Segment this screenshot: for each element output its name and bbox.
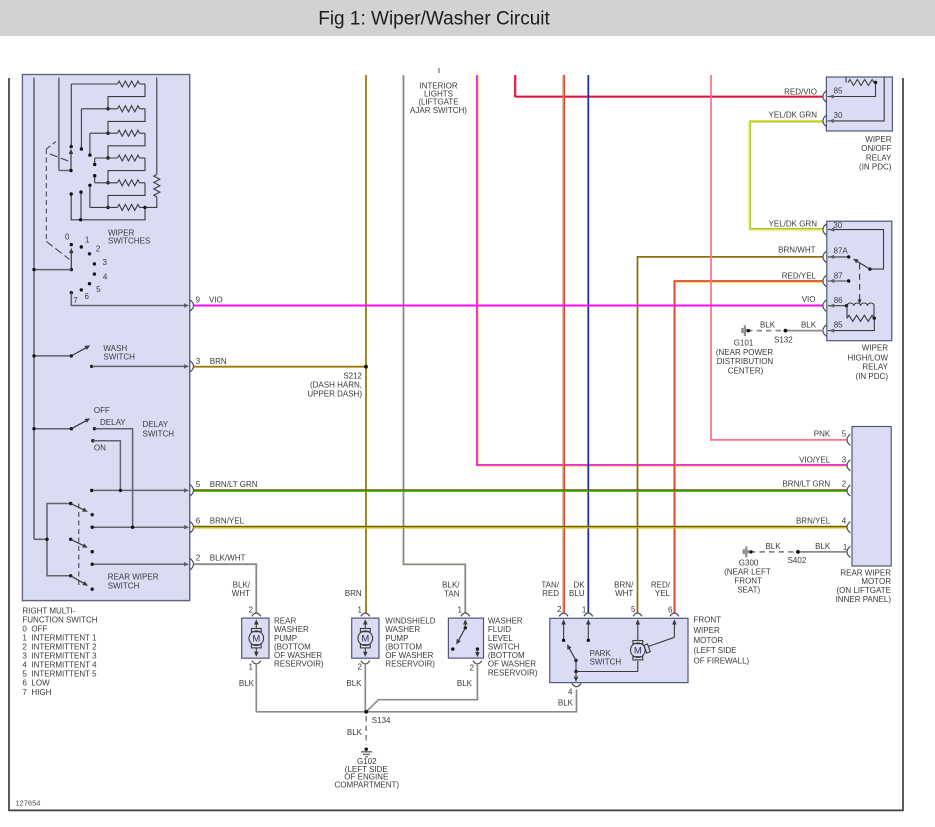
svg-text:3: 3 [103, 258, 108, 267]
wire YEL/DK GRN [749, 121, 823, 230]
svg-text:S402: S402 [788, 556, 807, 565]
node rail junction [79, 218, 82, 221]
svg-text:7: 7 [73, 296, 78, 305]
svg-text:87A: 87A [834, 247, 849, 256]
svg-text:BLK: BLK [239, 679, 255, 688]
svg-text:2: 2 [469, 663, 474, 672]
svg-text:3: 3 [196, 357, 201, 366]
node wiper switch contact 1 [80, 235, 90, 248]
svg-text:2: 2 [96, 245, 101, 254]
svg-text:INTERMITTENT 4: INTERMITTENT 4 [31, 661, 97, 670]
wire delay contact down [95, 429, 133, 528]
pin 1 connector (windshield washer pump) [358, 605, 370, 616]
label FRONT WIPER MOTOR [694, 616, 750, 666]
label BLK (x2 relay ground) [760, 320, 817, 329]
svg-text:WHT: WHT [232, 589, 250, 598]
label YEL/DK GRN (relay2) [769, 220, 818, 229]
svg-text:BRN: BRN [210, 357, 227, 366]
wire BLK (relay K2 pin 85 to S132) [785, 330, 823, 332]
wire RED/VIO [515, 75, 823, 98]
wire BRN/YEL (horizontal) [194, 527, 848, 528]
svg-text:86: 86 [834, 296, 843, 305]
node R6 junction [106, 206, 109, 209]
wire R1-R2 link [108, 84, 145, 109]
relay K2 coil to pin 85 [828, 318, 874, 332]
pin 9 connector [184, 295, 223, 311]
svg-text:SWITCH: SWITCH [590, 658, 622, 667]
svg-text:RELAY: RELAY [866, 153, 892, 162]
wire R4-R5 link [108, 158, 145, 183]
wire VIO/YEL [477, 75, 847, 466]
svg-text:SWITCHES: SWITCHES [108, 237, 150, 246]
svg-text:OFF: OFF [94, 406, 110, 415]
node wiper switch contact 5 [88, 282, 101, 294]
label WIPER ON/OFF RELAY (IN PDC) [859, 135, 892, 172]
pin 2 connector [184, 554, 245, 570]
svg-text:BLK: BLK [815, 542, 831, 551]
pin 30 connector (K1) [823, 111, 843, 126]
svg-text:RESERVOIR): RESERVOIR) [274, 660, 324, 669]
svg-text:4: 4 [842, 517, 847, 526]
svg-text:BLK: BLK [346, 679, 362, 688]
wire BLK dashed to G101 [750, 330, 781, 332]
wire R3-R4 link [108, 133, 145, 158]
pin 1 connector (rear wiper motor) [847, 546, 850, 557]
svg-text:BLK/WHT: BLK/WHT [210, 554, 246, 563]
svg-text:BLK: BLK [760, 320, 776, 329]
wire to pin 6 [91, 526, 186, 529]
svg-text:WIPER: WIPER [862, 344, 888, 353]
label DK BLU [569, 581, 585, 599]
svg-text:FRONT: FRONT [694, 616, 722, 625]
svg-text:RIGHT MULTI-: RIGHT MULTI- [22, 606, 75, 615]
svg-text:6: 6 [22, 679, 27, 688]
svg-text:(IN PDC): (IN PDC) [859, 163, 892, 172]
node wiper switch contact 3 [93, 258, 108, 267]
svg-text:7: 7 [22, 688, 27, 697]
svg-text:RELAY: RELAY [862, 363, 888, 372]
wire R6 tap stub [89, 185, 91, 207]
svg-text:3: 3 [842, 456, 847, 465]
wire BLK dashed to G300 [751, 551, 794, 553]
node R5 junction [106, 181, 109, 184]
wire stub to interior lights [438, 68, 440, 73]
right multi-function switch box [22, 75, 189, 601]
pin 85 connector (K1) [823, 87, 843, 103]
fluid level switch internals [451, 619, 480, 657]
node wash contact [90, 365, 93, 368]
wire R2 tap stub [80, 109, 82, 149]
pin 2 connector (windshield washer pump) [358, 661, 370, 672]
svg-text:BLU: BLU [569, 589, 585, 598]
label VIO/YEL (right) [799, 456, 847, 465]
svg-text:UPPER DASH): UPPER DASH) [307, 389, 362, 398]
wire BLK windshield pump down [364, 665, 366, 712]
node R3 junction [106, 132, 109, 135]
svg-text:2: 2 [22, 643, 27, 652]
label DELAY SWITCH [143, 420, 175, 439]
label OFF [94, 406, 110, 415]
wire BRN (vertical) [365, 75, 367, 613]
label WINDSHIELD WASHER PUMP [385, 616, 435, 668]
node contact 6 upper [79, 190, 82, 193]
svg-text:ON/OFF: ON/OFF [861, 144, 891, 153]
pin 6 connector (front wiper motor) [668, 605, 679, 616]
switch arm SW-C (wash) [32, 345, 90, 357]
wire rotary feed [32, 268, 71, 271]
wire bus B1 (left feed bus x=34) [34, 78, 47, 540]
svg-text:(LEFT SIDE: (LEFT SIDE [694, 646, 737, 655]
relay K1 coil to pin 85 [828, 83, 876, 99]
svg-text:REAR: REAR [274, 616, 296, 625]
node contact 5 upper [88, 184, 91, 187]
svg-text:(NEAR LEFT: (NEAR LEFT [724, 568, 771, 577]
node contact 1 upper [80, 147, 83, 150]
svg-text:RED/YEL: RED/YEL [782, 272, 817, 281]
pin 6 connector [184, 517, 245, 533]
svg-text:1: 1 [22, 633, 27, 642]
wire PNK [711, 75, 847, 440]
svg-text:MOTOR: MOTOR [861, 577, 891, 586]
node wiper switch contact 7 [70, 291, 79, 305]
rear wiper motor box [852, 427, 891, 567]
svg-text:(NEAR POWER: (NEAR POWER [716, 348, 774, 357]
front wiper motor M [631, 641, 651, 660]
front motor pin5 lead [636, 619, 641, 640]
switch arm SW-E2 (rear wiper) [69, 538, 88, 548]
resistor R3 [90, 130, 145, 136]
svg-text:OF WASHER: OF WASHER [385, 651, 433, 660]
svg-text:(DASH HARN,: (DASH HARN, [310, 381, 362, 390]
label PNK [814, 430, 847, 439]
svg-text:6: 6 [85, 292, 90, 301]
wire BLK/WHT (to rear washer pump) [194, 564, 257, 612]
node wiper switch contact 4 [93, 272, 108, 281]
washer fluid level switch box [448, 618, 483, 658]
label BLK (x2 rear motor ground) [765, 542, 830, 551]
label VIO (right) [802, 295, 816, 304]
svg-text:OF FIREWALL): OF FIREWALL) [694, 656, 750, 665]
svg-text:S212: S212 [343, 372, 362, 381]
pin 5 connector (front wiper motor) [631, 605, 642, 616]
label REAR WASHER PUMP [274, 616, 324, 668]
relay K2 box (wiper high/low relay) [827, 221, 892, 341]
wire wash to pin 3 [92, 365, 186, 367]
pin 86 connector (K2) [823, 296, 843, 311]
label WIPER HIGH/LOW RELAY (IN PDC) [848, 344, 889, 381]
svg-text:SEAT): SEAT) [737, 585, 760, 594]
svg-text:BRN/LT GRN: BRN/LT GRN [782, 480, 830, 489]
label REAR WIPER SWITCH [108, 573, 159, 591]
wire to pin 5 [90, 489, 186, 492]
wire BLK motor pin4 down [256, 690, 576, 712]
resistor R1 [71, 81, 145, 87]
svg-text:OFF: OFF [31, 624, 47, 633]
label PARK SWITCH [590, 649, 622, 667]
label pin1 BLK (rear motor) [843, 543, 848, 552]
park switch to motor [574, 660, 638, 673]
pin 2 connector (fluid level switch) [469, 661, 481, 673]
svg-text:9: 9 [196, 295, 201, 304]
svg-text:HIGH: HIGH [31, 688, 51, 697]
svg-text:M: M [634, 646, 642, 657]
legend right multi-function switch [22, 606, 97, 696]
relay K2 pin 87 stub [828, 279, 851, 283]
rear washer pump motor M [249, 619, 264, 657]
node contact 4 upper [93, 174, 96, 177]
mechanical link dashes (upper) [46, 142, 69, 260]
wire contact7 to pin 9 [71, 293, 185, 306]
park switch pin4 lead [574, 672, 579, 682]
label BLK (motor pin4) [558, 698, 574, 707]
relay K2 pin 86 stub [828, 304, 848, 308]
label BLK/ TAN [442, 581, 460, 599]
label BRN (pump) [345, 589, 362, 598]
pin 30 connector (K2) [823, 221, 843, 235]
svg-text:VIO/YEL: VIO/YEL [799, 456, 831, 465]
label BRN/YEL (right) [796, 517, 847, 526]
wire contact 6 upper stub [80, 192, 82, 220]
svg-text:BLK: BLK [457, 679, 473, 688]
label RED/YEL [782, 272, 817, 281]
svg-text:YEL/DK GRN: YEL/DK GRN [769, 220, 818, 229]
relay K1 box (wiper on/off relay) [826, 77, 892, 131]
node contact 2 upper [88, 153, 91, 156]
label YEL/DK GRN (relay1) [769, 111, 818, 120]
svg-text:6: 6 [668, 605, 673, 614]
svg-text:S134: S134 [372, 716, 391, 725]
svg-text:FLUID: FLUID [488, 625, 511, 634]
svg-text:BLK/: BLK/ [442, 581, 460, 590]
svg-text:G101: G101 [734, 338, 754, 347]
svg-text:5: 5 [22, 670, 27, 679]
switch arm SW-E3 (rear wiper) [69, 574, 88, 586]
svg-text:1: 1 [358, 605, 363, 614]
svg-text:WIPER: WIPER [694, 626, 720, 635]
svg-text:INTERMITTENT 1: INTERMITTENT 1 [31, 633, 97, 642]
wire rear switch bracket [34, 504, 71, 576]
resistor R7 (vertical) [145, 78, 160, 208]
label REAR WIPER MOTOR (ON LIFTGATE INNER PANEL) [836, 568, 892, 603]
resistor R6 [90, 204, 145, 210]
svg-text:TAN: TAN [444, 590, 460, 599]
svg-text:HIGH/LOW: HIGH/LOW [848, 353, 889, 362]
label INTERIOR LIGHTS (LIFTGATE AJAR SWITCH) [410, 82, 467, 115]
svg-text:85: 85 [834, 321, 843, 330]
pin 85 connector (K2) [823, 321, 843, 337]
svg-text:M: M [361, 634, 369, 645]
svg-text:87: 87 [834, 271, 843, 280]
ground G102 [335, 748, 400, 790]
svg-text:BLK: BLK [765, 542, 781, 551]
svg-text:30: 30 [834, 111, 843, 120]
resistor R4 [95, 155, 145, 161]
svg-text:YEL/DK GRN: YEL/DK GRN [769, 111, 818, 120]
svg-text:BLK: BLK [801, 320, 817, 329]
wire R5-R6 link [108, 183, 145, 208]
mechanical link dashes (rear) [78, 504, 80, 586]
svg-text:AJAR SWITCH): AJAR SWITCH) [410, 106, 467, 115]
svg-text:VIO: VIO [802, 295, 816, 304]
wire bus B2 (upper switch feed x=58.9) [59, 78, 71, 171]
wire BLK rear pump down [255, 665, 257, 712]
svg-text:5: 5 [196, 480, 201, 489]
pin 2 connector (rear wiper motor) [847, 485, 850, 496]
svg-text:LEVEL: LEVEL [488, 634, 513, 643]
label BLK/ WHT [232, 581, 251, 599]
label WASH SWITCH [103, 344, 135, 361]
svg-text:0: 0 [22, 624, 27, 633]
svg-text:RED: RED [542, 589, 559, 598]
node S132 [774, 329, 793, 345]
svg-text:BRN/WHT: BRN/WHT [778, 246, 815, 255]
relay K2 actuator dash [858, 264, 862, 305]
node contact 0 upper [70, 145, 73, 148]
svg-text:BLK: BLK [347, 728, 363, 737]
wire RED/YEL [674, 281, 823, 613]
label BLK (fluid switch) [457, 679, 473, 688]
svg-text:0: 0 [65, 233, 70, 242]
pin 5 connector [184, 480, 258, 496]
windshield washer pump motor M [358, 619, 373, 657]
svg-text:INNER PANEL): INNER PANEL) [836, 595, 892, 604]
svg-text:BRN/YEL: BRN/YEL [210, 517, 245, 526]
svg-text:PUMP: PUMP [385, 634, 408, 643]
svg-text:30: 30 [833, 221, 842, 230]
wire DK BLU [587, 75, 589, 613]
svg-text:LOW: LOW [31, 679, 50, 688]
node contact 7 upper [70, 192, 73, 195]
svg-text:MOTOR: MOTOR [694, 636, 724, 645]
switch arm SW-E1 (rear wiper) [69, 502, 88, 512]
switch arm SW-A (wiper resistor selector) [69, 149, 74, 172]
front wiper motor box [550, 618, 688, 682]
svg-text:1: 1 [843, 543, 848, 552]
wire BLK fluid switch down [366, 665, 477, 712]
label RED/ YEL (vertical wire) [651, 581, 671, 599]
svg-text:INTERMITTENT 3: INTERMITTENT 3 [31, 652, 97, 661]
svg-text:COMPARTMENT): COMPARTMENT) [335, 780, 400, 789]
svg-text:SWITCH: SWITCH [103, 352, 135, 361]
svg-text:(BOTTOM: (BOTTOM [488, 651, 525, 660]
svg-text:85: 85 [834, 87, 843, 96]
svg-text:INTERMITTENT 2: INTERMITTENT 2 [31, 643, 97, 652]
pin 5 connector (rear wiper motor) [847, 434, 850, 445]
switch arm SW-B (wiper rotary) [69, 248, 74, 271]
pin 1 connector (front wiper motor) [582, 605, 593, 616]
label BLK (rear pump) [239, 679, 255, 688]
node rear contact 3 [91, 588, 94, 591]
label RED/VIO [784, 87, 817, 96]
svg-text:1: 1 [458, 605, 463, 614]
node contact 3 upper [93, 163, 96, 166]
svg-text:CENTER): CENTER) [728, 366, 764, 375]
svg-text:BRN/LT GRN: BRN/LT GRN [210, 480, 258, 489]
node rear contact 1 [91, 513, 94, 516]
svg-text:BRN: BRN [345, 589, 362, 598]
node S402 [788, 550, 807, 565]
wire TAN/RED [563, 75, 564, 613]
figure number 127654 [15, 799, 40, 808]
svg-text:BRN/YEL: BRN/YEL [796, 517, 831, 526]
rear washer pump box [242, 618, 269, 658]
svg-text:1: 1 [249, 662, 254, 671]
svg-text:RESERVOIR): RESERVOIR) [385, 660, 435, 669]
resistor R2 [81, 106, 145, 112]
wire BLK/TAN [404, 75, 466, 613]
svg-text:2: 2 [842, 480, 847, 489]
svg-text:OF WASHER: OF WASHER [274, 651, 322, 660]
node wiper switch contact 6 [80, 288, 90, 301]
pin 2 connector (rear washer pump) [249, 605, 261, 616]
svg-text:S132: S132 [774, 335, 793, 344]
svg-text:4: 4 [568, 688, 573, 697]
node R4 junction [106, 156, 109, 159]
svg-text:(IN PDC): (IN PDC) [856, 372, 889, 381]
svg-text:WIPER: WIPER [865, 135, 891, 144]
pin 87A connector (K2) [823, 247, 848, 263]
svg-text:WHT: WHT [615, 589, 633, 598]
wire R5 tap stub [94, 176, 96, 183]
wire R2-R3 link [108, 109, 145, 133]
svg-text:1: 1 [85, 235, 90, 244]
node R6 right junction [143, 206, 146, 209]
wire R3 tap stub [89, 133, 91, 155]
svg-text:5: 5 [631, 605, 636, 614]
label TAN/ RED [541, 581, 559, 599]
node delay contact ON [91, 439, 94, 442]
node R2 junction [106, 107, 109, 110]
svg-text:M: M [252, 634, 260, 645]
svg-text:DELAY: DELAY [100, 418, 126, 427]
pin 87 connector (K2) [823, 271, 843, 286]
wire BRN (horizontal) [194, 366, 367, 368]
relay K2 pin 87A stub [828, 255, 851, 259]
pin 1 connector (fluid level switch) [458, 605, 470, 616]
label BLK (windshield pump) [346, 679, 362, 688]
svg-text:SWITCH: SWITCH [143, 430, 175, 439]
pin 2 connector (front wiper motor) [557, 605, 568, 616]
svg-text:5: 5 [96, 285, 101, 294]
label WIPER SWITCHES [108, 228, 150, 245]
pin 4 connector (front wiper motor) [568, 683, 581, 696]
wire on contact down [93, 441, 121, 491]
pin 4 connector (rear wiper motor) [847, 522, 850, 533]
svg-text:Fig 1: Wiper/Washer Circuit: Fig 1: Wiper/Washer Circuit [318, 9, 550, 30]
svg-text:G300: G300 [739, 559, 759, 568]
svg-text:2: 2 [358, 662, 363, 671]
svg-text:WASHER: WASHER [274, 625, 309, 634]
wire BRN/LT GRN (horizontal) [194, 490, 848, 491]
ground G101 [716, 325, 774, 375]
svg-text:PUMP: PUMP [274, 634, 297, 643]
svg-text:3: 3 [22, 652, 27, 661]
svg-text:RED/VIO: RED/VIO [784, 87, 817, 96]
node S212 [307, 365, 368, 399]
svg-text:5: 5 [842, 430, 847, 439]
svg-text:RESERVOIR): RESERVOIR) [488, 668, 538, 677]
node delay contact DELAY [93, 427, 96, 430]
svg-text:ON: ON [94, 444, 106, 453]
svg-text:BLK: BLK [558, 698, 574, 707]
label BRN/ WHT (vertical wire) [614, 581, 634, 599]
label BRN/WHT [778, 246, 815, 255]
svg-text:4: 4 [103, 272, 108, 281]
svg-text:VIO: VIO [209, 295, 223, 304]
relay K1 pin 30 path [828, 78, 885, 124]
wire BRN/WHT [638, 257, 824, 613]
svg-text:WINDSHIELD: WINDSHIELD [385, 616, 435, 625]
